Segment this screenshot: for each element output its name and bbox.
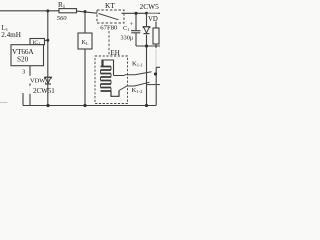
svg-text:EH: EH	[111, 49, 120, 57]
svg-text:2.4mH: 2.4mH	[1, 31, 21, 39]
svg-text:K1-2: K1-2	[132, 87, 144, 94]
svg-text:S20: S20	[17, 56, 29, 64]
svg-text:+: +	[130, 21, 134, 28]
svg-text:67F80: 67F80	[100, 24, 118, 31]
svg-text:VD: VD	[148, 16, 158, 23]
svg-text:330μ: 330μ	[121, 35, 134, 42]
svg-text:560: 560	[57, 15, 68, 22]
svg-text:KT: KT	[105, 1, 115, 10]
svg-text:KL: KL	[82, 39, 89, 46]
svg-text:IC1: IC1	[33, 40, 41, 46]
svg-text:K1-1: K1-1	[132, 60, 144, 67]
svg-text:2CW51: 2CW51	[33, 87, 55, 95]
svg-text:2CW5: 2CW5	[140, 2, 160, 11]
svg-text:C1: C1	[123, 25, 129, 32]
svg-text:VDW,: VDW,	[30, 77, 47, 84]
